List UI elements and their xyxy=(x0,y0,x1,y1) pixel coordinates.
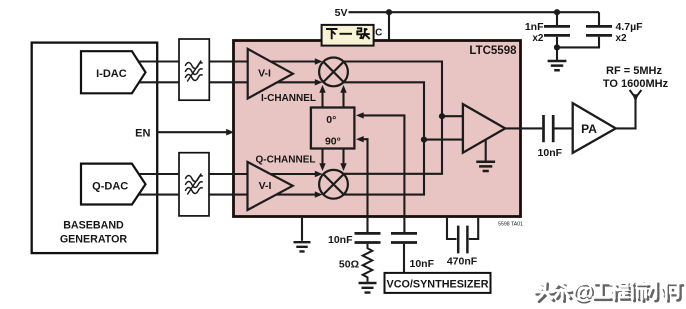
amplifier PA xyxy=(573,103,616,153)
I-DAC block xyxy=(81,51,146,93)
svg-text:I-CHANNEL: I-CHANNEL xyxy=(261,93,316,104)
capacitor 470nF across bias pins xyxy=(447,218,478,239)
op-amp RF output amplifier xyxy=(463,104,505,153)
wire V-I Q out+ arrow to mixer xyxy=(270,173,315,175)
wire LO- vertical into phase shifter xyxy=(363,139,368,232)
svg-text:PA: PA xyxy=(581,122,597,136)
node amp input 1 xyxy=(439,113,445,119)
svg-text:10nF: 10nF xyxy=(410,258,435,270)
svg-text:x2: x2 xyxy=(616,33,628,44)
svg-text:470nF: 470nF xyxy=(447,255,478,267)
svg-text:10nF: 10nF xyxy=(328,234,353,246)
wire I mixer out- down to Q mixer out- (summing bus 2) xyxy=(344,82,424,194)
wire Q-DAC+ to filter xyxy=(139,173,179,175)
node amp input 2 xyxy=(421,137,427,143)
svg-text:1nF: 1nF xyxy=(525,21,544,33)
wire 0deg up arrows to I mixer xyxy=(321,92,323,108)
I lowpass filter box xyxy=(179,39,209,100)
tooltip text xia yi zhang xyxy=(326,28,370,39)
wire I-DAC- to filter xyxy=(139,81,179,83)
svg-text:EN: EN xyxy=(135,128,150,140)
wire Q-DAC- to filter xyxy=(139,194,179,196)
IC block LTC5598 body xyxy=(234,41,521,217)
ground below output amplifier xyxy=(485,140,487,160)
wire VCC drop to block xyxy=(388,12,390,40)
svg-text:5V: 5V xyxy=(335,7,348,19)
mixer Q xyxy=(319,170,348,199)
Q-DAC block xyxy=(81,164,146,205)
wire I filter to V-I xyxy=(209,62,247,83)
op-amp V-I I-channel xyxy=(248,49,293,99)
svg-text:I-DAC: I-DAC xyxy=(96,68,127,80)
svg-text:4.7µF: 4.7µF xyxy=(616,21,644,33)
ground below decoupling caps xyxy=(556,47,558,60)
tooltip overlay box xyxy=(322,25,374,46)
antenna xyxy=(630,90,642,98)
svg-text:V-I: V-I xyxy=(259,180,272,192)
capacitor 10nF RF coupling xyxy=(544,115,554,142)
svg-text:VCO/SYNTHESIZER: VCO/SYNTHESIZER xyxy=(387,278,489,290)
svg-text:TO 1600MHz: TO 1600MHz xyxy=(603,78,669,90)
EN wire with arrow xyxy=(157,131,227,133)
svg-text:LTC5598: LTC5598 xyxy=(469,45,517,57)
phase shifter 0/90 box xyxy=(311,108,355,149)
baseband generator box xyxy=(32,43,158,254)
svg-text:V-I: V-I xyxy=(258,68,271,80)
capacitor 4.7uF x2 xyxy=(598,12,600,25)
svg-text:10nF: 10nF xyxy=(538,147,563,159)
resistor 50 ohm xyxy=(363,244,373,282)
svg-text:Q-DAC: Q-DAC xyxy=(92,180,128,192)
op-amp V-I Q-channel xyxy=(248,162,293,210)
svg-text:Q-CHANNEL: Q-CHANNEL xyxy=(256,154,316,165)
capacitor 10nF on LO- xyxy=(355,233,381,242)
svg-text:5598 TA01: 5598 TA01 xyxy=(498,222,523,228)
capacitor 10nF on LO+ xyxy=(391,233,417,242)
capacitor 1nF x2 xyxy=(556,12,558,25)
wire Q filter to V-I xyxy=(209,174,248,195)
Q lowpass filter box xyxy=(179,153,209,216)
node 5V rail junction xyxy=(386,9,392,15)
wire I-DAC+ to filter xyxy=(139,60,179,62)
svg-text:50Ω: 50Ω xyxy=(339,259,359,271)
wire PA to antenna xyxy=(616,97,636,128)
svg-text:0°: 0° xyxy=(326,114,336,126)
wire V-I Q out- arrow to mixer xyxy=(276,194,315,196)
svg-text:GENERATOR: GENERATOR xyxy=(60,233,128,245)
VCO/SYNTHESIZER box xyxy=(385,273,491,293)
wire LO+ vertical into phase shifter xyxy=(363,115,405,232)
mixer I xyxy=(319,58,348,87)
svg-text:RF = 5MHz: RF = 5MHz xyxy=(606,65,662,77)
svg-text:x2: x2 xyxy=(532,33,544,44)
wire V-I I out- arrow to mixer xyxy=(277,81,315,83)
ground below 50 ohm xyxy=(359,283,377,293)
wire 5V supply rail xyxy=(349,11,600,13)
wire V-I I out+ arrow to mixer xyxy=(271,60,316,62)
wire I mixer out+ down to Q mixer out+ (summing bus 1) xyxy=(344,62,442,174)
wire 90deg down arrows to Q mixer xyxy=(321,149,323,165)
wire RF out to coupling cap xyxy=(505,127,542,129)
svg-text:90°: 90° xyxy=(325,136,341,148)
svg-text:BASEBAND: BASEBAND xyxy=(63,219,124,231)
ground pin below block xyxy=(301,218,303,241)
